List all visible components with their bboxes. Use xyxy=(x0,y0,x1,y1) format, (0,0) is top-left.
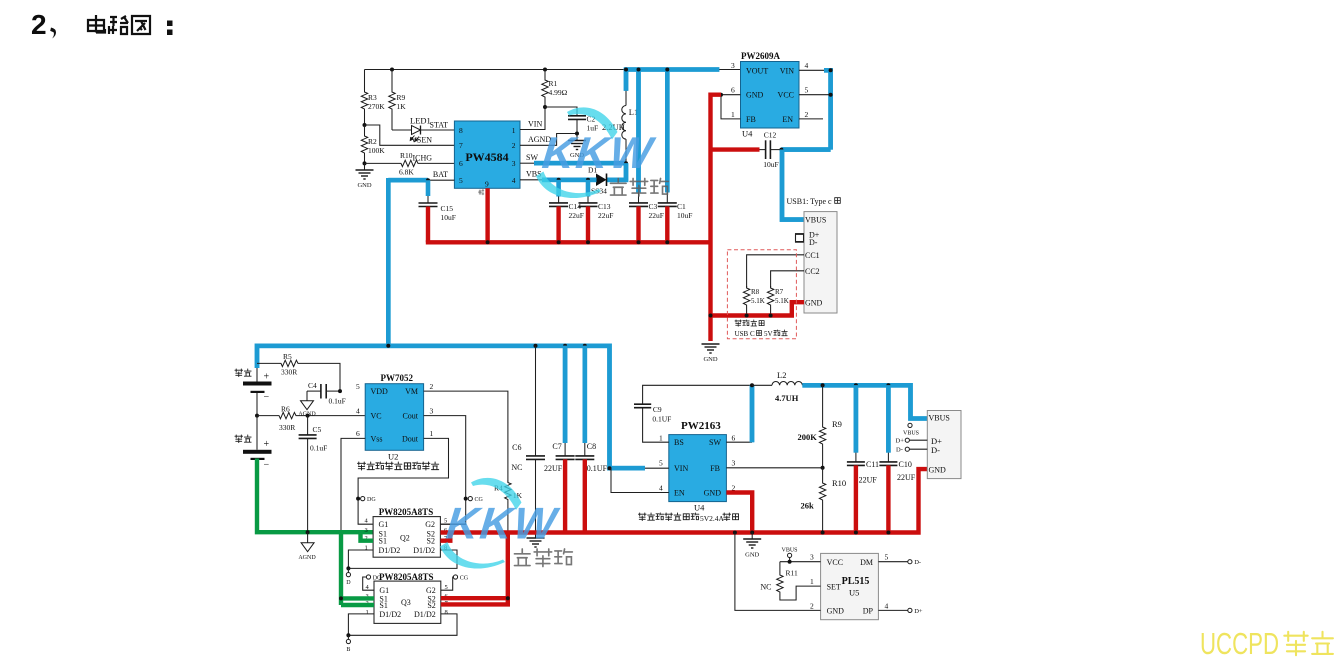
capacitor C8 xyxy=(575,346,594,533)
ground AGND under C4 xyxy=(298,401,316,418)
svg-text:D-: D- xyxy=(896,447,903,454)
battery BT2 xyxy=(243,416,272,471)
svg-text:VIN: VIN xyxy=(528,120,542,129)
svg-text:2: 2 xyxy=(805,110,809,119)
wire VIN top rail (thin) xyxy=(365,69,625,71)
svg-text:10uF: 10uF xyxy=(763,160,778,169)
resistor R11 xyxy=(777,562,821,600)
wire VBUS rail (blue) xyxy=(802,385,927,418)
junction Q3 S2 xyxy=(506,596,510,600)
junction bus GND drop xyxy=(709,240,713,244)
ground GND under R2 xyxy=(356,163,374,189)
ground AGND lower xyxy=(298,532,316,561)
battery BT1 xyxy=(243,368,272,416)
capacitor C4 xyxy=(307,384,340,399)
wire SW riser (blue) xyxy=(750,385,755,442)
svg-text:5: 5 xyxy=(885,553,889,562)
wire Q3 S1 arms (green) xyxy=(341,530,374,605)
svg-text:VCC: VCC xyxy=(827,558,843,567)
footer text UCCPD forum xyxy=(1200,627,1333,657)
junction rail2 C8 xyxy=(583,344,587,348)
junction R11/VCC xyxy=(788,560,792,564)
svg-text:PW8205A8TS: PW8205A8TS xyxy=(379,572,434,582)
svg-text:PW2609A: PW2609A xyxy=(741,51,780,61)
svg-text:1: 1 xyxy=(810,577,814,586)
label battery1 xyxy=(235,369,251,377)
capacitor C14 xyxy=(549,180,568,243)
junction R1/C2 xyxy=(543,105,547,109)
wire DP to D+ xyxy=(878,608,922,615)
svg-text:5: 5 xyxy=(659,459,663,468)
svg-text:D: D xyxy=(346,580,351,586)
resistor R10 xyxy=(819,468,825,533)
junction rail3 C11 xyxy=(854,383,858,387)
wire bus2 (red) xyxy=(440,469,927,532)
testpoint D- xyxy=(896,447,927,454)
junction testpoint DG xyxy=(356,497,360,501)
junction C1 bus xyxy=(665,240,669,244)
wire VIN pin4 lead xyxy=(799,69,831,71)
junction C14 bus xyxy=(557,240,561,244)
svg-text:3: 3 xyxy=(731,61,735,70)
svg-text:GND: GND xyxy=(745,552,759,559)
svg-text:NC: NC xyxy=(511,463,522,472)
svg-text:D1/D2: D1/D2 xyxy=(379,546,401,555)
wire EN pin2 xyxy=(799,118,823,120)
wire VCC xyxy=(780,561,821,563)
svg-text:VM: VM xyxy=(405,387,418,396)
junction SW/L2 xyxy=(750,383,754,387)
svg-text:9: 9 xyxy=(485,180,489,189)
svg-text:GND: GND xyxy=(704,489,722,498)
svg-text:VBUS: VBUS xyxy=(929,414,950,423)
resistor R9 xyxy=(819,385,825,468)
junction rail C1 xyxy=(665,68,669,72)
IC U2 PW7052 xyxy=(365,384,423,451)
junction FB/R9/R10 xyxy=(821,466,825,470)
svg-text:VBUS: VBUS xyxy=(805,216,826,225)
svg-text:10uF: 10uF xyxy=(441,213,456,222)
svg-text:FB: FB xyxy=(710,464,720,473)
svg-text:D1/D2: D1/D2 xyxy=(413,546,435,555)
dashed annotation box xyxy=(727,250,796,339)
junction battery mid xyxy=(255,414,259,418)
svg-text:R9: R9 xyxy=(832,419,842,429)
svg-text:3: 3 xyxy=(365,527,368,534)
svg-text:1: 1 xyxy=(731,110,735,119)
D+/D- shorting bracket xyxy=(796,234,805,243)
svg-text:DG: DG xyxy=(367,497,376,503)
capacitor C2 xyxy=(545,107,586,134)
svg-text:GND: GND xyxy=(357,182,371,189)
testpoint VBUS out xyxy=(903,423,919,436)
svg-text:FB: FB xyxy=(746,115,756,124)
wire GND pin6 lead xyxy=(721,94,741,96)
testpoint CG (Q3) xyxy=(441,575,469,590)
svg-text:U4: U4 xyxy=(694,503,705,513)
svg-text:0.1UF: 0.1UF xyxy=(587,464,608,473)
svg-text:Q3: Q3 xyxy=(401,598,411,607)
svg-text:22uF: 22uF xyxy=(569,211,584,220)
junction usb gnd drop xyxy=(709,314,713,318)
svg-text:6.8K: 6.8K xyxy=(399,168,414,177)
wire Q2 S1 green elbow xyxy=(361,531,374,541)
testpoint B (Q3) xyxy=(346,635,350,653)
capacitor C15 xyxy=(419,180,438,206)
svg-text:U5: U5 xyxy=(849,588,859,598)
watermark KKW lower xyxy=(440,478,572,569)
svg-text:PW2163: PW2163 xyxy=(681,420,721,432)
svg-text:8: 8 xyxy=(459,126,463,135)
svg-text:4: 4 xyxy=(659,484,663,493)
wire Q3 S2 upper (red) xyxy=(441,596,508,600)
resistor R7 xyxy=(767,286,773,307)
svg-text:C7: C7 xyxy=(552,442,561,451)
svg-text:270K: 270K xyxy=(368,102,385,111)
svg-text:D1/D2: D1/D2 xyxy=(379,610,401,619)
wire Q2 D1/D2 bottom loop xyxy=(348,550,457,568)
junction R6/C5 xyxy=(306,414,310,418)
svg-text:SW: SW xyxy=(709,438,721,447)
svg-text:PL515: PL515 xyxy=(842,576,870,587)
svg-text:ICHG: ICHG xyxy=(412,154,432,163)
wire VBS lead xyxy=(520,179,544,181)
svg-text:KKW: KKW xyxy=(540,129,658,178)
wire PW2609A pin3 VOUT lead xyxy=(719,69,740,71)
wire battery positive drop (blue) xyxy=(255,344,260,369)
svg-text:5V: 5V xyxy=(764,330,773,338)
svg-text:G2: G2 xyxy=(425,520,435,529)
junction rail2 C7 xyxy=(563,344,567,348)
svg-text:PW8205A8TS: PW8205A8TS xyxy=(379,507,434,517)
note text circuit tail xyxy=(723,513,739,521)
diode D1 SS34 xyxy=(596,174,607,187)
ground GND below usb net xyxy=(702,344,720,363)
svg-text:R10: R10 xyxy=(832,478,846,488)
svg-text:8: 8 xyxy=(445,609,448,616)
svg-text:6: 6 xyxy=(459,159,463,168)
svg-text:C4: C4 xyxy=(308,381,317,390)
inductor L1 xyxy=(622,68,626,164)
wire SW lead xyxy=(520,162,536,164)
wire ICHG xyxy=(365,162,455,164)
svg-text:VOUT: VOUT xyxy=(746,66,768,75)
junction VBS C13 xyxy=(586,178,590,182)
connector USB1 body xyxy=(804,212,837,313)
capacitor C11 xyxy=(847,385,865,532)
svg-text:R5: R5 xyxy=(283,352,292,361)
junction rail2 VIN corner xyxy=(608,466,612,470)
testpoint VBUS (PL515) xyxy=(782,548,798,562)
wire VBUS drop (blue) xyxy=(782,150,804,220)
wire R4 to bus2 xyxy=(507,502,509,533)
transistor Q3 xyxy=(374,581,441,623)
svg-text:Q2: Q2 xyxy=(400,534,410,543)
svg-text:D-: D- xyxy=(809,238,818,247)
junction SW/L1 xyxy=(624,161,628,165)
wire battery rail (blue) xyxy=(257,346,645,468)
svg-text:R1: R1 xyxy=(549,79,558,88)
wire VCC pin5 xyxy=(799,94,831,96)
capacitor C3 xyxy=(629,193,648,243)
note text comm resistors xyxy=(735,320,764,326)
junction rail L1 xyxy=(624,68,628,72)
wire VIN lead xyxy=(645,467,669,469)
svg-text:SET: SET xyxy=(827,582,841,591)
svg-text:−: − xyxy=(264,460,270,471)
svg-text:GND: GND xyxy=(703,356,717,363)
svg-text:CC2: CC2 xyxy=(805,267,820,276)
svg-text:6: 6 xyxy=(356,429,360,438)
wire C12 to VIN (blue) xyxy=(781,147,830,152)
svg-text:R10: R10 xyxy=(400,151,413,160)
svg-text:R6: R6 xyxy=(281,405,290,414)
svg-text:DM: DM xyxy=(860,558,873,567)
wire BS xyxy=(643,408,669,443)
IC U5 PL515 xyxy=(821,553,879,619)
wire BAT lead xyxy=(428,179,454,181)
resistor R1 xyxy=(542,70,548,108)
svg-text:4.99Ω: 4.99Ω xyxy=(549,88,568,97)
resistor R3 xyxy=(361,70,367,126)
wire CC1 xyxy=(747,255,804,288)
wire CC2 xyxy=(771,271,804,288)
svg-text:VDD: VDD xyxy=(371,387,389,396)
wire Cout to CG xyxy=(424,416,466,525)
svg-text:5.1K: 5.1K xyxy=(775,297,789,305)
svg-text:EN: EN xyxy=(674,489,685,498)
svg-text:4.7UH: 4.7UH xyxy=(775,393,799,403)
svg-text:L2: L2 xyxy=(777,370,786,380)
svg-text:+: + xyxy=(264,372,270,383)
svg-text:4: 4 xyxy=(885,601,889,610)
wire AGND pin2 xyxy=(520,134,577,146)
svg-text:AGND: AGND xyxy=(298,555,316,561)
junction rail2 C6 xyxy=(534,344,538,348)
wire Vss xyxy=(341,438,365,532)
svg-text:R11: R11 xyxy=(786,569,798,578)
junction VBS C14 xyxy=(557,178,561,182)
junction C2/AGND xyxy=(575,132,579,136)
wire VBS node (blue) xyxy=(542,178,597,183)
junction rail2 left drop xyxy=(386,344,390,348)
watermark KKW upper xyxy=(536,107,668,198)
svg-text:5: 5 xyxy=(356,382,360,391)
svg-text:C6: C6 xyxy=(512,443,521,452)
svg-text:3: 3 xyxy=(732,459,736,468)
resistor R10 xyxy=(399,160,420,166)
svg-text:USB1: Type c: USB1: Type c xyxy=(787,197,833,206)
svg-text:R8: R8 xyxy=(751,288,760,296)
LED LED1 xyxy=(392,126,454,142)
svg-text:EN: EN xyxy=(782,115,793,124)
svg-text:USB C: USB C xyxy=(735,330,755,338)
resistor R4 xyxy=(505,481,511,502)
svg-text:Cout: Cout xyxy=(402,412,418,421)
wire GND bus top (red) xyxy=(426,240,711,244)
svg-text:LED1: LED1 xyxy=(410,116,431,126)
junction R2/GND/ICHG xyxy=(363,161,367,165)
wire pin9 to bus (red) xyxy=(485,188,489,242)
testpoint DG xyxy=(361,497,377,504)
resistor R2 xyxy=(361,125,367,163)
ground GND under bus2 xyxy=(743,533,761,559)
junction C8 bus2 xyxy=(583,531,587,535)
junction C4/VDD xyxy=(338,389,342,393)
svg-text:GND: GND xyxy=(805,298,823,307)
resistor R6 xyxy=(257,412,365,418)
svg-text:2: 2 xyxy=(512,141,516,150)
junction green Q3 xyxy=(339,596,343,600)
svg-text:330R: 330R xyxy=(281,368,297,377)
svg-text:C12: C12 xyxy=(764,131,777,140)
svg-text:C9: C9 xyxy=(653,405,662,414)
svg-text:0.1uF: 0.1uF xyxy=(329,397,346,406)
svg-text:100K: 100K xyxy=(368,146,385,155)
svg-text:VIN: VIN xyxy=(674,464,688,473)
junction rail3 C10 xyxy=(886,383,890,387)
svg-text:6: 6 xyxy=(731,86,735,95)
junction Q3 B testpoint xyxy=(346,633,350,637)
junction FB/GND xyxy=(719,93,723,97)
wire battery net vertical (blue) xyxy=(386,178,391,346)
svg-text:BS: BS xyxy=(674,438,684,447)
wire battery negative (green) xyxy=(257,459,373,533)
svg-text:22UF: 22UF xyxy=(544,464,563,473)
wire PW2163 GND (red) xyxy=(726,493,752,533)
junction VIN xyxy=(829,68,833,72)
svg-text:2: 2 xyxy=(430,382,434,391)
svg-text:C5: C5 xyxy=(313,425,322,434)
svg-text:VBUS: VBUS xyxy=(782,548,798,554)
connector VBUS body xyxy=(927,411,961,479)
junction C12/VBUS drop xyxy=(779,148,783,152)
svg-text:200K: 200K xyxy=(798,432,818,442)
capacitor C13 xyxy=(579,180,598,243)
svg-text:GND: GND xyxy=(827,607,845,616)
svg-text:2: 2 xyxy=(31,9,47,40)
wire VIN pin1 xyxy=(520,107,545,130)
svg-text:22uF: 22uF xyxy=(649,211,664,220)
resistor R8 xyxy=(743,286,749,307)
wire Q3 S2 drop (red) xyxy=(441,533,510,605)
ground GND under C6 xyxy=(527,533,545,548)
svg-text:BAT: BAT xyxy=(433,170,448,179)
IC U4 PW2163 xyxy=(669,435,727,502)
note text USB C port 5V xyxy=(735,330,788,338)
svg-text:SW: SW xyxy=(526,153,538,162)
wire SW lead xyxy=(726,441,752,443)
junction testpoint CG xyxy=(464,497,468,501)
svg-text:Vss: Vss xyxy=(371,434,383,443)
svg-text:DP: DP xyxy=(863,607,874,616)
note text protection circuit xyxy=(357,462,438,470)
svg-text:2: 2 xyxy=(810,601,814,610)
junction C10 bus2 xyxy=(886,531,890,535)
testpoint D+ xyxy=(896,438,928,445)
svg-text:1K: 1K xyxy=(397,102,407,111)
svg-text:5: 5 xyxy=(459,176,463,185)
wire VM to R4 xyxy=(424,391,508,482)
svg-text:D+: D+ xyxy=(896,438,905,445)
junction rail R1 xyxy=(543,68,547,72)
junction R10 bus2 xyxy=(821,531,825,535)
svg-text:C10: C10 xyxy=(899,460,912,469)
capacitor C12 xyxy=(711,140,782,159)
label battery2 xyxy=(235,435,251,443)
svg-text:3: 3 xyxy=(512,159,516,168)
wire FB xyxy=(726,467,822,469)
wire DM to D- xyxy=(878,559,921,566)
svg-text:U2: U2 xyxy=(388,452,398,462)
wire BAT (blue) xyxy=(388,178,428,183)
junction rail3 R9 xyxy=(821,383,825,387)
svg-text:NC: NC xyxy=(760,583,771,592)
svg-text:26k: 26k xyxy=(801,501,815,511)
svg-text:D+: D+ xyxy=(914,608,923,615)
svg-text:C11: C11 xyxy=(866,460,879,469)
inductor L2 xyxy=(752,382,802,386)
wire VOUT rail (blue) xyxy=(624,67,719,72)
svg-text:4: 4 xyxy=(356,407,360,416)
junction PL515 gnd drop xyxy=(733,531,737,535)
svg-text:3: 3 xyxy=(430,407,434,416)
junction VCC blue xyxy=(829,93,833,97)
junction Q2 D testpoint xyxy=(346,566,350,570)
svg-text:C8: C8 xyxy=(587,442,596,451)
wire SW node (blue) xyxy=(534,161,626,166)
junction C11 bus2 xyxy=(854,531,858,535)
wire EN xyxy=(611,468,669,492)
svg-text:C3: C3 xyxy=(649,202,658,211)
ground GND under C2 xyxy=(568,134,586,160)
svg-text:7: 7 xyxy=(459,141,463,150)
svg-text:R9: R9 xyxy=(397,93,406,102)
svg-text:PW4584: PW4584 xyxy=(465,150,508,164)
junction C6 bus2 xyxy=(534,531,538,535)
wire Q2 G2 to CG net xyxy=(440,523,465,525)
svg-text:1: 1 xyxy=(512,126,516,135)
svg-text:S1: S1 xyxy=(379,601,387,610)
svg-text:STAT: STAT xyxy=(430,121,449,130)
svg-text:S2: S2 xyxy=(427,537,435,546)
wire FB pin1 xyxy=(721,95,741,119)
capacitor C9 xyxy=(634,385,752,407)
wire SW to D1 cathode (blue) xyxy=(607,163,626,180)
svg-text:1: 1 xyxy=(430,429,434,438)
svg-text:VC: VC xyxy=(371,412,382,421)
svg-text:5.1K: 5.1K xyxy=(751,297,765,305)
resistor R9 xyxy=(389,70,395,131)
svg-text:0.1uF: 0.1uF xyxy=(310,444,327,453)
svg-text:+: + xyxy=(264,439,270,450)
svg-text:VIN: VIN xyxy=(780,66,794,75)
svg-text:10uF: 10uF xyxy=(677,211,692,220)
junction C3 bus xyxy=(637,240,641,244)
junction C13 bus xyxy=(586,240,590,244)
svg-text:DG: DG xyxy=(373,576,382,582)
svg-text:UCCPD: UCCPD xyxy=(1200,627,1279,657)
svg-text:22UF: 22UF xyxy=(897,473,916,482)
svg-text:Dout: Dout xyxy=(402,434,419,443)
svg-text:D-: D- xyxy=(931,445,940,455)
capacitor C7 xyxy=(556,346,575,533)
svg-text:GND: GND xyxy=(929,466,947,475)
svg-text:22UF: 22UF xyxy=(859,476,878,485)
svg-text:1: 1 xyxy=(366,609,369,616)
IC U4 PW2609A xyxy=(741,62,800,129)
svg-text:0.1UF: 0.1UF xyxy=(652,415,671,424)
